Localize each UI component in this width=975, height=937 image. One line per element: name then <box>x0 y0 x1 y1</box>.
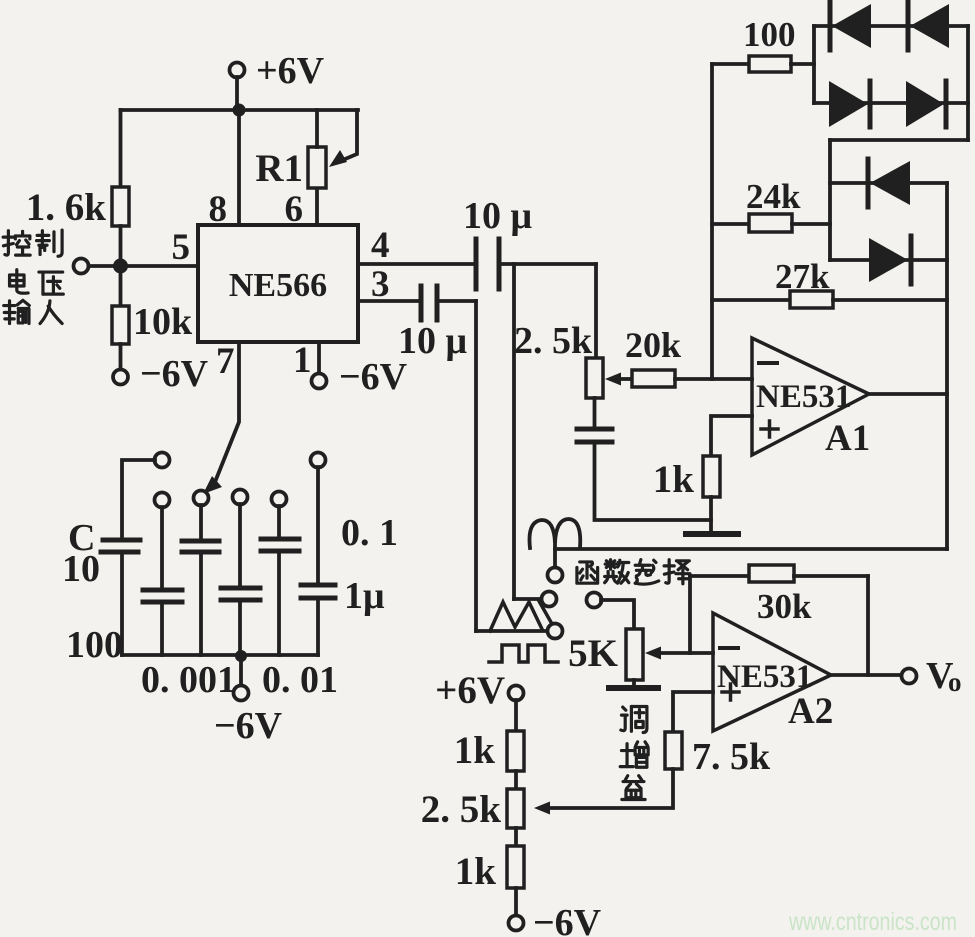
terminal selector square <box>548 624 563 639</box>
capacitor C4 (0.01) <box>221 588 260 600</box>
resistor 27k <box>712 257 947 308</box>
terminal selector sine <box>548 568 563 583</box>
svg-text:0. 001: 0. 001 <box>141 659 236 701</box>
label control voltage input (Chinese) <box>3 230 63 323</box>
wire +6V stem <box>235 77 239 110</box>
svg-text:0. 1: 0. 1 <box>341 512 398 554</box>
wire diode block2 rows <box>830 183 947 260</box>
svg-text:1: 1 <box>293 340 312 381</box>
wire selector to 5K <box>601 600 634 629</box>
wire divider 1 <box>514 771 518 789</box>
wire A2 output <box>831 673 901 677</box>
svg-text:0. 01: 0. 01 <box>262 659 338 701</box>
svg-text:+6V: +6V <box>435 669 505 712</box>
terminal control voltage input <box>74 259 89 274</box>
wire cap C3 bottom <box>199 554 203 655</box>
svg-text:100: 100 <box>66 624 123 666</box>
svg-text:10: 10 <box>62 548 100 590</box>
svg-text:8: 8 <box>209 189 228 230</box>
wire diode block1 frame <box>814 26 968 140</box>
terminal -6V cap bank <box>214 686 283 748</box>
wire pin 4 <box>358 262 476 266</box>
svg-text:10 μ: 10 μ <box>398 320 468 362</box>
node control-input junction <box>113 259 128 274</box>
wire cap C1 top <box>122 460 155 538</box>
square wave symbol <box>489 645 558 662</box>
terminal cap C6 <box>311 453 326 468</box>
wire diode block2 left <box>828 140 832 260</box>
terminal cap C2 <box>155 493 170 508</box>
resistor 2.5k potentiometer <box>514 320 603 398</box>
svg-text:7: 7 <box>216 341 235 382</box>
svg-text:www.cntronics.com: www.cntronics.com <box>788 908 957 936</box>
svg-text:4: 4 <box>371 225 390 266</box>
wire pin4 cap to 2.5k <box>499 262 596 266</box>
wire sine line <box>555 547 947 551</box>
wire pin3 cap link <box>437 299 476 303</box>
label 10 <box>62 548 100 590</box>
wire left branch down <box>119 110 123 187</box>
resistor R1 potentiometer <box>255 147 326 190</box>
wire pin 8 <box>237 110 241 225</box>
wire pin6 to R1 <box>315 147 319 225</box>
power +6V terminal <box>230 50 325 92</box>
resistor 20k <box>625 325 681 387</box>
svg-text:24k: 24k <box>746 177 801 216</box>
wire cap C1 bottom <box>120 554 124 655</box>
wire 2.5k stem <box>594 264 598 358</box>
label 100 <box>66 624 123 666</box>
wire to selector square <box>476 629 548 633</box>
svg-text:1. 6k: 1. 6k <box>26 186 107 229</box>
wire cap to ground node <box>595 442 712 520</box>
pin 1 label <box>293 340 312 381</box>
svg-text:5K: 5K <box>568 632 619 675</box>
wire divider 2 <box>514 828 518 846</box>
terminal -6V left <box>113 353 209 395</box>
wire input to pin 5 <box>89 264 199 268</box>
svg-text:1μ: 1μ <box>344 575 385 617</box>
terminal cap C3 <box>194 491 209 506</box>
svg-text:100: 100 <box>743 15 796 54</box>
wire pot bottom <box>593 398 597 429</box>
capacitor C6 (1u) <box>301 585 335 598</box>
label 0.1 <box>341 512 398 554</box>
label adjust gain (Chinese) <box>620 706 648 799</box>
pin 4 label <box>371 225 390 266</box>
svg-text:7. 5k: 7. 5k <box>692 736 771 778</box>
wire cap C2 top <box>160 507 164 588</box>
svg-text:−6V: −6V <box>533 902 602 937</box>
svg-text:3: 3 <box>371 264 390 305</box>
capacitor pot series <box>577 429 612 442</box>
wire divider 3 <box>514 888 518 916</box>
svg-text:A2: A2 <box>788 691 833 732</box>
pin 7 label <box>216 341 235 382</box>
switch blade <box>539 601 552 624</box>
resistor 1.6k <box>26 186 129 229</box>
node junction top rail <box>233 104 246 117</box>
svg-text:o: o <box>948 667 962 697</box>
wire right column <box>945 183 949 549</box>
label 1u <box>344 575 385 617</box>
terminal -6V bottom <box>509 902 602 937</box>
wire cap C5 bottom <box>277 553 281 655</box>
wire top rail <box>121 108 359 112</box>
resistor 1k bottom (divider) <box>455 846 524 893</box>
resistor 1k (A1) <box>653 456 720 501</box>
svg-text:−6V: −6V <box>140 353 209 395</box>
terminal cap C1 <box>155 453 170 468</box>
diode D3 <box>829 81 870 127</box>
wire pin 3 <box>358 299 421 303</box>
node cap bank junction <box>235 650 247 662</box>
resistor 10k <box>112 301 193 344</box>
resistor 7.5k <box>665 732 771 778</box>
wire 1.6k to node <box>119 226 123 306</box>
ground 5K <box>609 685 658 691</box>
terminal cap C4 <box>233 490 248 505</box>
wire 20k to A1 minus <box>675 377 752 381</box>
wire 7.5k to 2.5k arrow <box>534 769 673 815</box>
sine wave symbol <box>530 519 581 568</box>
wire R1 wiper <box>329 110 357 167</box>
diode D1 <box>830 2 871 50</box>
wire cap C3 top <box>199 505 203 539</box>
diode D5 <box>868 159 910 207</box>
wire cap C2 bottom <box>160 604 164 655</box>
wire to selector triangle <box>514 597 542 601</box>
svg-text:NE531: NE531 <box>756 379 851 415</box>
resistor 30k <box>690 565 868 626</box>
label 0.001 <box>141 659 236 701</box>
wire cap C6 bottom <box>316 600 320 655</box>
svg-text:−6V: −6V <box>214 705 283 747</box>
wiper arrow 2.5k <box>605 373 632 386</box>
capacitor C3 (0.001) <box>182 541 219 552</box>
svg-text:A1: A1 <box>825 418 870 459</box>
capacitor 10u top (pin4) <box>463 195 533 289</box>
svg-text:5: 5 <box>172 227 191 268</box>
pin 3 label <box>371 264 390 305</box>
wire R1 top <box>315 110 319 147</box>
wire cap C6 top <box>316 467 320 583</box>
wiper arrow 5K <box>645 647 713 660</box>
svg-text:1k: 1k <box>653 458 695 501</box>
svg-text:20k: 20k <box>625 325 681 365</box>
triangle wave symbol <box>490 602 542 631</box>
svg-text:30k: 30k <box>757 587 812 626</box>
diode D6 <box>869 236 911 284</box>
pin 8 label <box>209 189 228 230</box>
capacitor C1 (10) <box>101 540 140 552</box>
wire cap C4 top <box>238 504 242 586</box>
svg-text:1k: 1k <box>454 729 496 772</box>
diode D4 <box>906 81 946 127</box>
wire cap bank bus <box>122 653 318 657</box>
svg-text:27k: 27k <box>775 257 830 296</box>
wire 5K ground stem <box>632 680 636 687</box>
wire feedback column <box>710 64 714 379</box>
ground A1 <box>686 531 738 537</box>
wire pin 7 <box>203 342 239 494</box>
wire cap C5 top <box>277 506 281 538</box>
capacitor 10u bottom (pin3) <box>398 286 468 362</box>
watermark <box>788 908 957 936</box>
resistor 5K potentiometer <box>568 629 643 680</box>
wire pin 1 <box>317 342 321 373</box>
pin 5 label <box>172 227 191 268</box>
svg-text:10 μ: 10 μ <box>463 195 533 237</box>
wire A1 output <box>869 392 947 396</box>
wire bus to -6V <box>239 656 243 686</box>
op-amp U1 NE566 <box>198 225 358 342</box>
pin 6 label <box>285 189 304 230</box>
label function select (Chinese) <box>577 560 690 585</box>
svg-text:+6V: +6V <box>256 50 325 92</box>
resistor 24k <box>712 177 830 232</box>
terminal selector triangle <box>542 592 557 607</box>
wire 30k to output <box>866 576 870 675</box>
svg-text:6: 6 <box>285 189 304 230</box>
terminal +6V bottom <box>435 669 523 712</box>
wire A1 plus input <box>711 416 752 456</box>
diode D2 <box>908 2 949 50</box>
wire A2 plus input <box>673 692 713 732</box>
wire 30k left vertical <box>688 576 692 653</box>
svg-text:1k: 1k <box>455 850 497 893</box>
svg-text:NE566: NE566 <box>229 267 327 304</box>
wire 1k to ground <box>709 497 713 534</box>
op-amp A1 NE531 <box>752 338 870 459</box>
resistor 2.5k (divider) <box>421 788 524 831</box>
wire cap C4 bottom <box>238 602 242 655</box>
svg-text:−6V: −6V <box>339 356 408 398</box>
terminal -6V pin1 <box>312 356 408 398</box>
svg-text:2. 5k: 2. 5k <box>514 320 593 362</box>
resistor 100 <box>712 15 814 72</box>
wire triangle run down <box>512 264 516 599</box>
capacitor C2 (100) <box>143 590 182 602</box>
svg-text:10k: 10k <box>133 301 193 343</box>
wire 10k to -6V <box>119 344 123 370</box>
wire +6V stem bottom <box>514 700 518 731</box>
resistor 1k top (divider) <box>454 729 524 772</box>
svg-text:R1: R1 <box>255 147 303 190</box>
svg-text:2. 5k: 2. 5k <box>421 788 502 831</box>
terminal cap C5 <box>272 492 287 507</box>
capacitor C5 (0.1) <box>261 539 299 551</box>
label 0.01 <box>262 659 338 701</box>
label C <box>68 517 95 559</box>
op-amp A2 NE531 <box>713 613 833 732</box>
selector output terminal <box>587 593 602 608</box>
wire square run down <box>474 301 478 631</box>
terminal Vo <box>902 655 962 697</box>
